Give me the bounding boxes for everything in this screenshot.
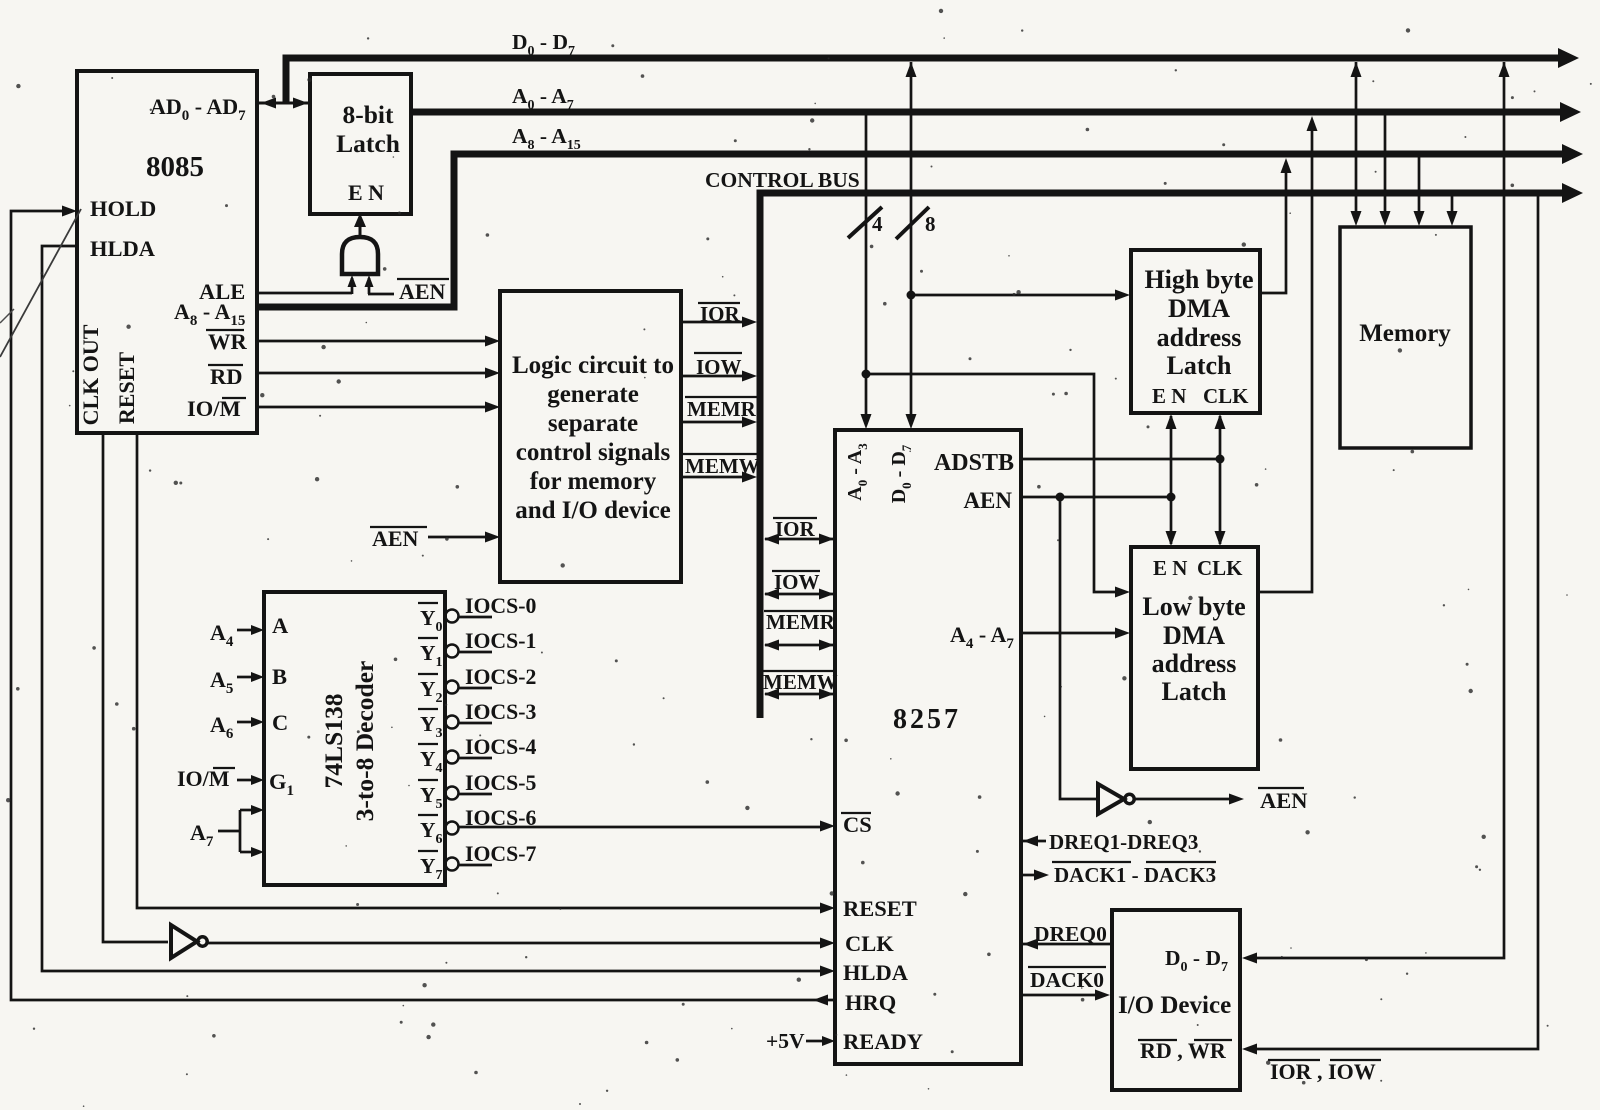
label IO/M at decoder — [177, 766, 235, 791]
svg-text:A6​: A6​ — [210, 712, 234, 742]
pin A0-A3 of 8257 — [844, 443, 870, 501]
wire IOCS-2 stub — [459, 687, 493, 690]
wire A0-A3 to low byte latch — [866, 374, 1130, 598]
output circle Y4 — [446, 751, 459, 764]
svg-text:E N: E N — [1152, 384, 1186, 408]
pin Y2 of decoder — [418, 674, 443, 706]
label DREQ1-DREQ3 — [1049, 830, 1198, 854]
label DACK0 — [1028, 967, 1106, 992]
label 8-bit Latch — [336, 100, 400, 158]
wire CLK between latches — [1215, 414, 1226, 546]
pin HLDA — [90, 236, 156, 261]
label IOCS-0 — [465, 594, 537, 618]
bus A0-A7 (low address bus) — [411, 102, 1581, 122]
svg-text:CLK: CLK — [1203, 384, 1249, 408]
output circle Y5 — [446, 787, 459, 800]
svg-text:DACK0: DACK0 — [1030, 968, 1104, 992]
label A7 — [190, 820, 214, 850]
svg-text:control signals: control signals — [516, 439, 671, 466]
label AEN output — [1258, 788, 1308, 813]
label IOCS-7 — [465, 842, 537, 866]
label MEMW at 8257 — [761, 670, 838, 694]
label IOR at 8257 — [773, 517, 817, 541]
label bus A8-A15 — [512, 124, 581, 153]
output circle Y6 — [446, 822, 459, 835]
svg-text:A4​: A4​ — [210, 620, 234, 650]
wire DREQ0 — [1023, 939, 1112, 950]
wire data bus to I/O device — [1242, 62, 1510, 964]
DMA controller 8257 — [835, 430, 1021, 1064]
label AEN input — [370, 526, 427, 551]
wire IOCS-5 stub — [459, 793, 493, 796]
wire high byte latch to A8-A15 bus — [1260, 158, 1292, 293]
wire ADSTB to latch CLK — [1021, 458, 1220, 461]
wire CLK OUT down — [103, 433, 168, 942]
svg-text:ADSTB: ADSTB — [934, 450, 1014, 476]
wire MEMR control bus to 8257 — [764, 640, 834, 651]
wire data bus to memory — [1351, 62, 1362, 226]
pin ALE — [199, 279, 245, 304]
wire IOCS-3 stub — [459, 722, 493, 725]
svg-text:8257: 8257 — [893, 704, 961, 735]
label DREQ0 — [1034, 922, 1107, 946]
svg-text:RESET: RESET — [843, 896, 917, 921]
svg-text:Y2​: Y2​ — [420, 677, 443, 706]
svg-text:IOCS-1: IOCS-1 — [465, 629, 536, 653]
svg-text:IO/M: IO/M — [177, 766, 230, 791]
wire DREQ1-DREQ3 — [1023, 836, 1046, 847]
svg-text:DACK1 - DACK3: DACK1 - DACK3 — [1054, 863, 1216, 887]
pin A4-A7 of 8257 — [950, 622, 1014, 652]
wire IOW logic to control bus — [681, 371, 757, 382]
junction D0-D7 branch — [907, 291, 916, 300]
svg-text:A: A — [272, 613, 289, 638]
junction A0-A3 branch — [862, 370, 871, 379]
svg-text:HLDA: HLDA — [90, 236, 156, 261]
svg-text:74LS138: 74LS138 — [319, 694, 348, 789]
svg-text:IOR: IOR — [775, 517, 816, 541]
wire IOW control bus to 8257 — [764, 589, 834, 600]
wire MEMR logic to control bus — [681, 417, 757, 428]
label IOCS-6 — [465, 806, 537, 830]
wire AEN to logic block — [428, 532, 500, 543]
svg-text:Low byte: Low byte — [1142, 592, 1245, 621]
wire HRQ to HOLD — [11, 206, 835, 1006]
wire MEMW logic to control bus — [681, 472, 757, 483]
output circle Y0 — [446, 610, 459, 623]
svg-text:HRQ: HRQ — [845, 990, 896, 1015]
output circle Y7 — [446, 858, 459, 871]
svg-text:IOCS-4: IOCS-4 — [465, 735, 537, 759]
pin RESET — [114, 352, 139, 424]
svg-text:HLDA: HLDA — [843, 960, 909, 985]
svg-text:CS: CS — [843, 812, 872, 837]
wire AND output to latch EN — [354, 213, 366, 237]
AND gate for latch enable — [342, 237, 378, 274]
pin A8-A15 — [174, 299, 245, 329]
svg-text:address: address — [1157, 323, 1242, 352]
pin AEN of 8257 — [963, 488, 1012, 513]
svg-text:IOCS-6: IOCS-6 — [465, 806, 537, 830]
logic circuit block — [500, 291, 681, 582]
decoder 74LS138 — [264, 592, 445, 885]
wire IOCS-1 stub — [459, 651, 493, 654]
svg-text:DREQ0: DREQ0 — [1034, 922, 1107, 946]
wire control bus to memory — [1447, 195, 1458, 226]
pin EN of latch — [348, 180, 384, 205]
wire +5V to READY — [806, 1036, 835, 1046]
wire AD0-AD7 between 8085 and latch — [259, 98, 308, 109]
svg-text:High byte: High byte — [1144, 265, 1253, 294]
label IOW at 8257 — [772, 570, 820, 594]
I/O device block — [1112, 910, 1240, 1090]
svg-text:IOCS-2: IOCS-2 — [465, 665, 536, 689]
pin Y4 of decoder — [418, 744, 443, 776]
scratch artifact — [0, 209, 81, 357]
pin RESET of 8257 — [843, 896, 917, 921]
svg-text:generate: generate — [547, 381, 639, 408]
label bus D0-D7 — [512, 30, 575, 59]
svg-text:D0​ - D7​: D0​ - D7​ — [1165, 946, 1228, 975]
svg-text:RD: RD — [210, 364, 243, 389]
svg-text:address: address — [1152, 649, 1237, 678]
label IOR IOW — [1268, 1059, 1381, 1084]
svg-text:CLK: CLK — [1197, 556, 1243, 580]
label A4 — [210, 620, 234, 650]
svg-text:IO/M: IO/M — [187, 396, 241, 421]
latch High byte DMA address — [1131, 250, 1260, 413]
wire EN between latches — [1166, 414, 1177, 546]
pin ADSTB — [934, 450, 1014, 476]
latch 8-bit Latch — [310, 74, 411, 214]
pin Y1 of decoder — [418, 638, 443, 670]
svg-text:AEN: AEN — [372, 526, 419, 551]
label bus A0-A7 — [512, 84, 574, 113]
pin CS — [841, 812, 872, 837]
pin G1 of decoder — [269, 769, 294, 799]
pin D0-D7 of 8257 — [888, 444, 914, 503]
svg-text:+5V: +5V — [766, 1029, 805, 1053]
svg-text:Logic circuit to: Logic circuit to — [512, 352, 674, 379]
svg-text:Latch: Latch — [336, 129, 400, 158]
label MEMR at 8257 — [764, 610, 836, 634]
svg-text:A5​: A5​ — [210, 667, 233, 697]
pin EN CLK of high latch — [1152, 384, 1249, 408]
svg-text:CLK OUT: CLK OUT — [78, 324, 103, 425]
junction ADSTB CLK — [1216, 455, 1225, 464]
wire IOR logic to control bus — [681, 317, 757, 328]
svg-text:B: B — [272, 664, 287, 689]
svg-text:I/O Device: I/O Device — [1118, 992, 1231, 1019]
pin Y0 of decoder — [418, 603, 443, 635]
label DACK1-DACK3 — [1052, 862, 1216, 887]
svg-text:A8​ - A15​: A8​ - A15​ — [512, 124, 581, 153]
wire IOCS-4 stub — [459, 757, 493, 760]
svg-text:MEMW: MEMW — [685, 454, 760, 478]
wire A4-A7 to low byte latch — [1021, 628, 1130, 639]
label 74LS138 3-to-8 Decoder — [319, 661, 379, 822]
svg-text:Y4​: Y4​ — [420, 747, 443, 776]
wire A5 input — [237, 672, 264, 682]
label +5V — [766, 1029, 805, 1053]
svg-text:Y5​: Y5​ — [420, 783, 443, 812]
svg-text:G1​: G1​ — [269, 769, 294, 799]
slash 4-bit — [848, 207, 883, 238]
wire ALE to AND gate — [258, 275, 357, 294]
label A6 — [210, 712, 234, 742]
pin Y5 of decoder — [418, 780, 443, 812]
svg-text:IOW: IOW — [696, 355, 742, 379]
output circle Y2 — [446, 681, 459, 694]
svg-text:E N: E N — [348, 180, 384, 205]
svg-text:C: C — [272, 710, 288, 735]
pin RD WR of I/O device — [1138, 1038, 1232, 1063]
svg-text:AEN: AEN — [1260, 788, 1308, 813]
svg-text:E N: E N — [1153, 556, 1187, 580]
wire A7 bracket — [218, 805, 264, 857]
wire IO/M to G1 — [237, 775, 264, 785]
latch Low byte DMA address — [1131, 547, 1258, 769]
svg-text:for memory: for memory — [530, 468, 657, 495]
label logic circuit text — [512, 352, 674, 524]
output circle Y3 — [446, 716, 459, 729]
bus D0-D7 (data bus) — [286, 48, 1579, 104]
label High byte DMA address Latch — [1144, 265, 1253, 380]
svg-text:AD0​ - AD7​: AD0​ - AD7​ — [150, 94, 246, 124]
wire HLDA to 8257 — [42, 246, 835, 977]
pin WR — [206, 329, 248, 354]
svg-text:AEN: AEN — [963, 488, 1012, 513]
pin RD — [208, 364, 243, 389]
svg-text:Y3​: Y3​ — [420, 712, 443, 741]
pin HOLD — [90, 196, 156, 221]
svg-text:CONTROL BUS: CONTROL BUS — [705, 168, 860, 192]
svg-text:IOCS-7: IOCS-7 — [465, 842, 537, 866]
svg-text:IOCS-0: IOCS-0 — [465, 594, 537, 618]
label IOW — [694, 353, 742, 379]
svg-text:Latch: Latch — [1162, 677, 1228, 706]
svg-text:DMA: DMA — [1168, 294, 1230, 323]
svg-text:A4​ - A7​: A4​ - A7​ — [950, 622, 1014, 652]
pin HLDA of 8257 — [843, 960, 909, 985]
svg-text:AEN: AEN — [399, 279, 446, 304]
wire DACK0 — [1021, 990, 1110, 1001]
label IOCS-4 — [465, 735, 537, 759]
svg-text:IOW: IOW — [774, 570, 820, 594]
wire A8-A15 bus to memory — [1414, 156, 1425, 226]
junction AEN inverter branch — [1056, 493, 1065, 502]
wire A4 input — [237, 625, 264, 635]
svg-text:MEMW: MEMW — [763, 670, 838, 694]
svg-text:separate: separate — [548, 410, 638, 437]
wire low byte latch to A0-A7 bus — [1258, 116, 1318, 592]
pin B of decoder — [272, 664, 287, 689]
pin EN CLK of low latch — [1153, 556, 1243, 580]
svg-text:HOLD: HOLD — [90, 196, 156, 221]
svg-text:IOR: IOR — [700, 302, 741, 326]
svg-text:D0​ - D7​: D0​ - D7​ — [888, 444, 914, 503]
wire AEN to AND gate — [365, 275, 395, 294]
svg-text:4: 4 — [872, 212, 883, 236]
inverter for AEN — [1098, 784, 1134, 814]
label MEMR — [685, 397, 757, 421]
memory block — [1340, 227, 1471, 448]
wire IOR IOW to I/O device — [1242, 195, 1538, 1055]
svg-text:Y0​: Y0​ — [420, 606, 443, 635]
wire MEMW control bus to 8257 — [764, 689, 834, 700]
svg-text:READY: READY — [843, 1029, 923, 1054]
wire A6 input — [237, 717, 264, 727]
pin Y7 of decoder — [418, 851, 443, 883]
svg-text:Memory: Memory — [1359, 320, 1451, 347]
slash 8-bit — [896, 207, 936, 239]
svg-text:8-bit: 8-bit — [343, 100, 395, 129]
label IOCS-3 — [465, 700, 537, 724]
svg-text:8: 8 — [925, 212, 936, 236]
wire IOCS-7 stub — [459, 864, 493, 867]
svg-text:MEMR: MEMR — [766, 610, 836, 634]
pin Y6 of decoder — [418, 815, 443, 847]
pin HRQ — [845, 990, 896, 1015]
label 8257 — [893, 704, 961, 735]
wire IOCS-6 to 8257 CS — [459, 821, 836, 832]
bus A8-A15 (high address bus) — [259, 144, 1583, 307]
pin READY — [843, 1029, 923, 1054]
pin CLK of 8257 — [845, 931, 894, 956]
wire D0-D7 to high byte latch — [911, 290, 1130, 301]
svg-text:DREQ1-DREQ3: DREQ1-DREQ3 — [1049, 830, 1198, 854]
svg-text:A7​: A7​ — [190, 820, 214, 850]
wire AEN to latch EN — [1021, 496, 1171, 499]
wire inverter to 8257 CLK — [207, 938, 835, 949]
pin A of decoder — [272, 613, 289, 638]
svg-text:Latch: Latch — [1167, 351, 1233, 380]
wire A0-A7 bus to memory — [1380, 114, 1391, 226]
wire AEN to inverter — [1060, 497, 1096, 799]
pin Y3 of decoder — [418, 709, 443, 741]
inverter for CLK — [171, 925, 207, 958]
wire WR to logic block — [258, 336, 500, 347]
wire D0-D7 from D bus to 8257 — [906, 62, 917, 429]
output circle Y1 — [446, 645, 459, 658]
svg-text:DMA: DMA — [1163, 621, 1225, 650]
svg-text:3-to-8 Decoder: 3-to-8 Decoder — [350, 661, 379, 822]
svg-text:A0​ - A3​: A0​ - A3​ — [844, 443, 870, 501]
label Low byte DMA address Latch — [1142, 592, 1245, 706]
label AEN at AND gate — [397, 279, 449, 304]
svg-text:WR: WR — [208, 329, 248, 354]
svg-text:RESET: RESET — [114, 352, 139, 424]
wire IOR control bus to 8257 — [764, 534, 834, 545]
label IOR — [698, 302, 741, 326]
wire A0-A3 from A bus to 8257 — [861, 114, 872, 429]
pin C of decoder — [272, 710, 288, 735]
svg-text:IOR , IOW: IOR , IOW — [1270, 1059, 1376, 1084]
label MEMW — [683, 454, 760, 478]
label IOCS-2 — [465, 665, 536, 689]
svg-text:IOCS-3: IOCS-3 — [465, 700, 537, 724]
svg-text:Y7​: Y7​ — [420, 854, 443, 883]
pin D0-D7 of I/O device — [1165, 946, 1228, 975]
bus CONTROL BUS — [760, 183, 1583, 718]
label AD0-AD7 — [150, 94, 246, 124]
svg-text:RD , WR: RD , WR — [1140, 1038, 1227, 1063]
wire DACK1-DACK3 — [1021, 870, 1049, 881]
wire RESET to 8257 — [137, 433, 835, 914]
microprocessor 8085 — [77, 71, 257, 433]
junction AEN EN — [1167, 493, 1176, 502]
svg-text:IOCS-5: IOCS-5 — [465, 771, 537, 795]
wire inverter to AEN label — [1134, 794, 1244, 805]
wire RD to logic block — [258, 368, 500, 379]
svg-text:8085: 8085 — [146, 151, 204, 183]
label I/O Device — [1118, 992, 1231, 1019]
pin IO/M — [187, 396, 246, 421]
wire IOCS-0 stub — [459, 616, 493, 619]
pin CLK OUT — [78, 324, 103, 425]
label A5 — [210, 667, 233, 697]
label CONTROL BUS — [705, 168, 860, 192]
wire IO/M to logic block — [258, 402, 500, 413]
label IOCS-1 — [465, 629, 536, 653]
label Memory — [1359, 320, 1451, 347]
svg-text:CLK: CLK — [845, 931, 894, 956]
svg-text:MEMR: MEMR — [687, 397, 757, 421]
svg-text:and I/O device: and I/O device — [515, 497, 671, 524]
label IOCS-5 — [465, 771, 537, 795]
svg-text:Y1​: Y1​ — [420, 641, 443, 670]
label 8085 — [146, 151, 204, 183]
svg-text:Y6​: Y6​ — [420, 818, 443, 847]
